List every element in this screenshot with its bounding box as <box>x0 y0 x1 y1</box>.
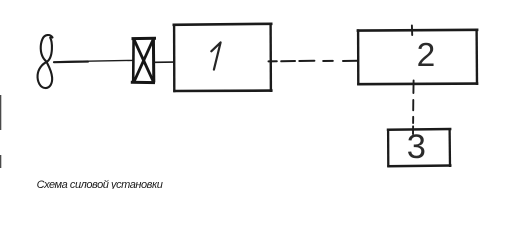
svg-text:2: 2 <box>417 37 436 74</box>
coupling (box with X) <box>131 38 156 83</box>
scan edge mark (left margin) <box>0 95 1 130</box>
shaft wire (propeller to coupling) <box>54 60 88 63</box>
dashed wire block 1 to block 2 <box>269 60 358 63</box>
tick mark crossing top edge of block 2 <box>411 25 413 35</box>
scan edge mark (left margin lower) <box>0 155 1 168</box>
label 1 (hand-drawn italic digit) <box>211 42 220 69</box>
wire coupling to block 1 <box>155 61 174 63</box>
block 3 rectangle <box>387 128 452 167</box>
dashed wire block 2 to block 3 <box>412 81 415 135</box>
block 1 rectangle <box>173 23 273 93</box>
block 2 rectangle <box>357 29 479 86</box>
svg-text:3: 3 <box>407 128 426 166</box>
svg-text:Схема силовой установки: Схема силовой установки <box>37 179 163 189</box>
propeller symbol (figure-8 screw) <box>38 35 53 88</box>
